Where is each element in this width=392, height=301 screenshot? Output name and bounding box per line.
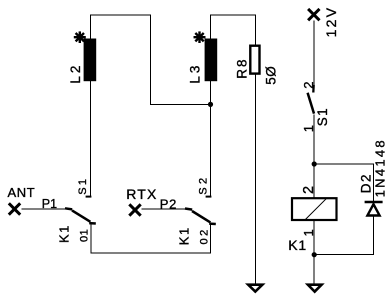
svg-text:RTX: RTX: [126, 186, 157, 202]
svg-text:2: 2: [301, 82, 316, 89]
svg-text:K1: K1: [288, 237, 307, 253]
svg-text:P2: P2: [160, 197, 178, 212]
svg-text:L3: L3: [188, 63, 203, 84]
svg-text:1N4148: 1N4148: [373, 138, 388, 197]
svg-text:12V: 12V: [323, 6, 339, 38]
svg-text:S2: S2: [198, 174, 210, 194]
svg-text:02: 02: [198, 227, 210, 244]
svg-text:ANT: ANT: [8, 185, 36, 200]
svg-text:1: 1: [301, 125, 316, 132]
svg-text:2: 2: [301, 186, 317, 194]
svg-text:S1: S1: [77, 177, 89, 195]
svg-text:K1: K1: [177, 226, 192, 245]
svg-text:5Ø: 5Ø: [264, 66, 279, 85]
svg-text:L2: L2: [68, 63, 83, 84]
svg-text:D2: D2: [358, 173, 373, 193]
svg-text:01: 01: [78, 229, 90, 242]
svg-text:P1: P1: [42, 197, 57, 211]
svg-text:S1: S1: [315, 107, 330, 126]
svg-text:R8: R8: [235, 58, 250, 79]
svg-text:K1: K1: [56, 224, 71, 243]
svg-text:1: 1: [301, 229, 316, 236]
